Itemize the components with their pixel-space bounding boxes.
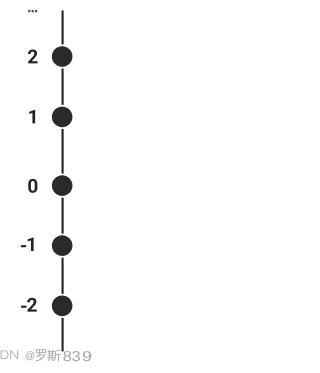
watermark at-sign [26, 351, 35, 360]
white halo around point -1 [51, 234, 73, 256]
tick label 2 [28, 50, 38, 64]
watermark text DN. [1, 350, 25, 359]
point at 0 [52, 175, 73, 196]
white halo around point 1 [51, 106, 73, 128]
point at -2 [52, 296, 73, 317]
tick label 0 [28, 179, 37, 193]
watermark CJK 斯 [47, 350, 60, 362]
point at 2 [52, 46, 73, 67]
watermark digits 839 [63, 351, 91, 361]
tick label -1 [21, 237, 34, 251]
watermark CJK 罗 [36, 349, 46, 361]
tick label -2 [21, 298, 37, 312]
number line (vertical axis) [62, 10, 64, 351]
white halo around point -2 [51, 295, 73, 317]
ellipsis continuation dots at top [28, 10, 37, 13]
tick label 1 [29, 110, 35, 124]
point at -1 [52, 235, 73, 256]
white halo around point 0 [51, 174, 73, 196]
point at 1 [52, 107, 73, 128]
white halo around point 2 [51, 45, 73, 67]
